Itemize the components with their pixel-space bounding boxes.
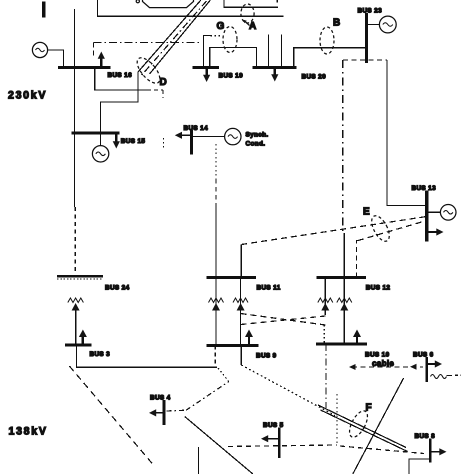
bus BUS 9 — [207, 344, 259, 347]
line dashed BUS5 right to BUS 8 — [340, 446, 424, 454]
bus BUS 23 — [365, 13, 368, 63]
boundary dashes right of stub — [147, 89, 163, 91]
bus BUS 20 — [253, 66, 297, 69]
svg-text:BUS 23: BUS 23 — [358, 8, 383, 15]
svg-text:BUS 15: BUS 15 — [121, 138, 146, 145]
wire BUS 20 up left — [267, 35, 269, 68]
wire BUS 14 to BUS 11 — [215, 144, 217, 179]
svg-text:BUS 10: BUS 10 — [365, 352, 390, 359]
svg-text:BUS 11: BUS 11 — [257, 285, 281, 292]
bus BUS 12 — [317, 276, 366, 279]
wire BUS 9 down dashed — [214, 345, 216, 364]
svg-text:BUS 3: BUS 3 — [90, 351, 111, 358]
ellipse B — [320, 27, 334, 54]
bus BUS 14 — [190, 130, 193, 155]
svg-text:BUS 20: BUS 20 — [302, 74, 327, 81]
pointer A — [244, 21, 250, 26]
arrow up BUS 12 left — [321, 303, 329, 311]
svg-text:BUS 19: BUS 19 — [219, 73, 244, 80]
wire dots right — [211, 35, 222, 37]
generator G23 — [379, 16, 396, 33]
svg-text:E: E — [363, 207, 370, 218]
wire BUS11 upper corner of dashed line — [240, 245, 242, 278]
arrow up BUS 11 left — [212, 303, 220, 311]
line BUS 3 diagonal dashed to south-east — [69, 366, 153, 465]
wire BUS16 down stub — [95, 68, 147, 90]
wire dotted BUS10 left leg — [323, 325, 325, 345]
ellipse E — [368, 213, 393, 244]
arrow up BUS 11 right — [237, 303, 245, 311]
svg-text:F: F — [366, 403, 372, 414]
wire BUS 12 right vertical above — [343, 233, 345, 277]
generator G16 — [32, 42, 47, 57]
wire long vertical left column — [74, 9, 76, 207]
wire BUS 24 to BUS 3 — [75, 310, 77, 345]
load arrow right BUS 6 — [427, 363, 436, 365]
synchronous condenser — [225, 128, 241, 144]
svg-text:BUS 5: BUS 5 — [263, 422, 284, 429]
cable dashed line BUS10 to BUS6 — [352, 366, 423, 368]
generator G13 — [440, 205, 456, 221]
load arrow up BUS 16 — [100, 57, 102, 68]
ellipse A — [241, 4, 254, 23]
bus BUS 19 — [193, 66, 219, 69]
line crossing dashed BUS11-BUS12 a — [241, 314, 326, 326]
bus BUS 4 — [162, 400, 165, 425]
wire BUS 20 to BUS 23 — [294, 48, 367, 68]
transformer zigzag BUS 11 left — [209, 298, 224, 303]
boundary dash-dot vertical right — [342, 60, 344, 232]
wire BUS19 to BUS20 via G — [210, 48, 257, 68]
line crossing dashed BUS11-BUS12 b — [241, 316, 326, 325]
wire BUS 4 right dash-dot — [167, 409, 187, 412]
line BUS 4 diagonal to bottom — [185, 417, 253, 474]
wire BUS 8 left down — [409, 459, 430, 474]
svg-text:D: D — [160, 77, 167, 88]
svg-text:BUS 12: BUS 12 — [366, 285, 391, 292]
ellipse F — [346, 408, 371, 440]
arrow up to BUS 24 — [72, 303, 80, 311]
ellipse G — [223, 27, 237, 53]
transformer zigzag BUS 12 left — [318, 298, 333, 303]
wire top-left corner to long top line — [98, 0, 284, 16]
arrow up BUS 12 right — [340, 303, 348, 311]
wire vertical bottom-centre — [198, 447, 200, 474]
bus BUS 24 — [57, 275, 103, 278]
bus BUS 10 — [316, 342, 367, 345]
svg-text:G: G — [217, 21, 225, 32]
line BUS 4 to BUS 9 dash-dot diagonal — [186, 382, 229, 411]
load arrow left BUS 14 — [181, 134, 192, 136]
load arrow up BUS 9 — [248, 336, 250, 345]
svg-text:B: B — [333, 18, 340, 29]
wire top box at A — [224, 0, 278, 7]
wire generator to BUS 16 — [48, 50, 64, 68]
bus BUS 8 — [429, 439, 432, 463]
svg-text:BUS 13: BUS 13 — [412, 185, 437, 192]
wire BUS 11 to BUS 9 right — [240, 277, 242, 345]
bus BUS 16 — [58, 66, 111, 69]
svg-text:Cond.: Cond. — [246, 141, 266, 148]
load arrow left BUS 5 — [268, 438, 280, 440]
bus BUS 15 — [72, 131, 120, 134]
bus BUS 3 — [65, 344, 92, 347]
wire BUS 11 to BUS 9 left — [215, 277, 217, 345]
svg-text:BUS 16: BUS 16 — [108, 72, 133, 79]
svg-text:A: A — [249, 21, 256, 32]
svg-text:BUS 8: BUS 8 — [415, 433, 436, 440]
svg-text:138kV: 138kV — [9, 426, 48, 438]
load arrow down BUS 19 — [205, 68, 207, 76]
svg-text:BUS 6: BUS 6 — [413, 352, 434, 359]
bus BUS 5 — [278, 428, 281, 458]
line BUS 6 diagonal through F — [353, 378, 404, 474]
load arrow down BUS 20 — [274, 68, 276, 76]
svg-text:230kV: 230kV — [8, 90, 47, 102]
load arrow down BUS 15 — [115, 133, 117, 143]
wire dotted to cable crossing — [336, 394, 338, 444]
svg-text:BUS 4: BUS 4 — [150, 395, 171, 402]
wire BUS 9 to crossing — [240, 345, 242, 365]
wire dashed continuation to BUS 24 — [74, 207, 76, 272]
line double circuit through F upper — [318, 405, 406, 448]
wire BUS 23 to BUS 13 — [387, 60, 427, 206]
transformer zigzag BUS 24 — [68, 298, 84, 303]
line BUS12 to BUS13 dashed — [357, 241, 359, 278]
boundary dash-dot diagonal — [141, 1, 207, 77]
wire bus to synchronous condenser — [192, 135, 225, 137]
ellipse D — [133, 54, 164, 87]
bus 17 stub top-left — [42, 2, 45, 18]
bus BUS 11 — [207, 276, 256, 279]
wire dotted corner up to BUS 9 leg — [218, 368, 229, 382]
transformer stadium top — [143, 0, 194, 8]
line double-circuit diagonal to BUS 16 — [138, 0, 201, 72]
generator G15 — [92, 146, 108, 162]
svg-text:cable: cable — [372, 359, 394, 368]
svg-text:Synch.: Synch. — [246, 132, 269, 139]
line BUS11 to BUS13 dashed — [241, 217, 426, 245]
boundary dash-dot around BUS 16 — [94, 42, 200, 44]
load arrow right BUS 8 — [430, 451, 440, 453]
wire BUS 3 to BUS 9 — [76, 345, 217, 367]
svg-text:BUS 9: BUS 9 — [256, 353, 277, 360]
transformer zigzag BUS 11 right — [233, 298, 248, 303]
load arrow up BUS 10 — [356, 336, 358, 344]
load arrow right BUS 13 — [427, 231, 438, 233]
wire bus to generator — [367, 24, 380, 26]
wire BUS 12 to BUS 10 right — [343, 277, 345, 344]
line double circuit through F lower — [321, 410, 408, 452]
load arrow left BUS 4 — [156, 412, 164, 414]
reactor squiggle BUS 6 — [431, 375, 447, 379]
line dotted diagonal BUS9 to F — [241, 365, 335, 416]
bus BUS 13 — [425, 191, 428, 242]
wire bus to generator — [427, 211, 441, 213]
wire BUS 20 up right — [280, 35, 282, 68]
line dashed BUS5 left — [228, 445, 337, 447]
wire BUS 12 to BUS 10 left — [324, 277, 326, 315]
line second diagonal — [150, 0, 211, 74]
wire dashed below BUS 23 — [343, 59, 387, 61]
wire diagonal foot to BUS 15 — [101, 72, 139, 145]
load arrow up BUS 3 — [82, 336, 84, 345]
wire dash above A box — [276, 0, 278, 5]
wire BUS 19 up — [204, 36, 211, 68]
transformer zigzag BUS 12 right — [337, 298, 352, 303]
boundary dots lower — [163, 138, 165, 149]
wire BUS 10 down dash-dot — [325, 344, 327, 408]
svg-text:BUS 14: BUS 14 — [184, 125, 209, 132]
svg-text:BUS 24: BUS 24 — [105, 285, 130, 292]
bus BUS 6 — [425, 357, 428, 382]
